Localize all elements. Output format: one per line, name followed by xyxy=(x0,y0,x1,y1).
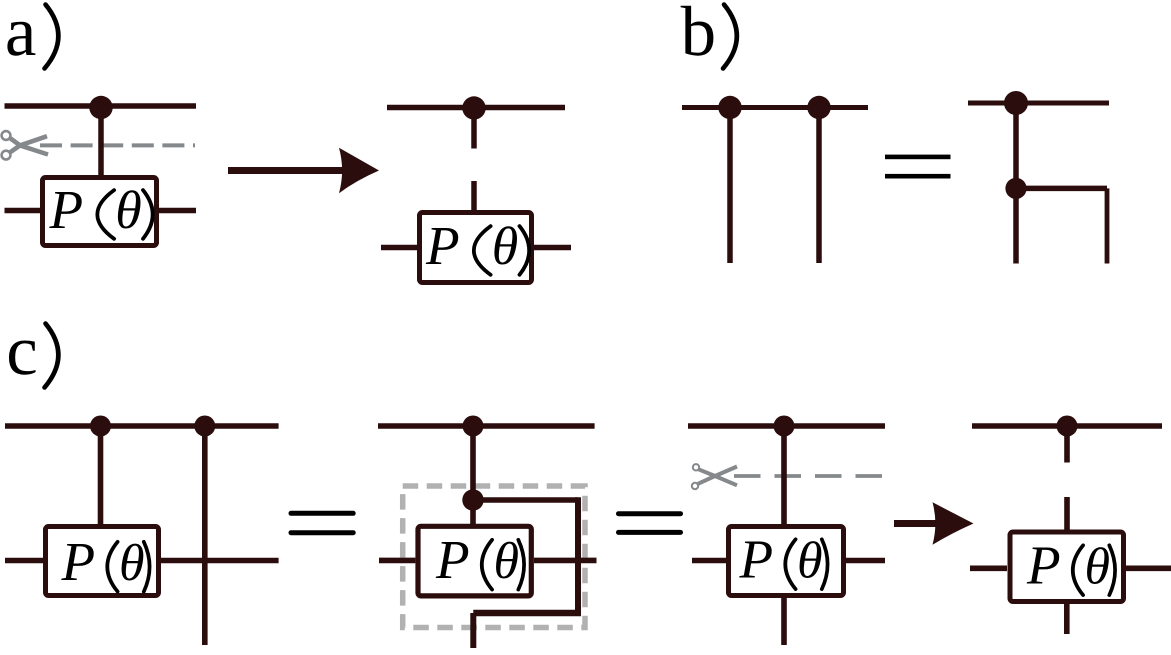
scissors: panel a cut symbol xyxy=(2,131,48,159)
wire: panel c circuit1 control qubit line xyxy=(5,423,279,429)
wire: panel a left, target qubit right segment xyxy=(159,208,196,214)
svg-text:θ: θ xyxy=(797,533,823,590)
svg-text:θ: θ xyxy=(115,180,142,240)
wire: panel c circuit2 control qubit line xyxy=(378,423,595,429)
control dot: panel a right xyxy=(462,96,485,119)
svg-text:θ: θ xyxy=(119,535,145,592)
gate box: panel c circuit3 P(theta) xyxy=(729,527,844,596)
gate box: panel c circuit2 P(theta) xyxy=(418,526,531,596)
wire: panel c circuit4 bottom leg xyxy=(1064,601,1070,634)
arrow: panel c xyxy=(894,502,974,544)
wire: panel c circuit4 target left segment xyxy=(970,565,1007,571)
wire: panel c circuit4 lower cut stub xyxy=(1064,497,1070,531)
wire: panel c circuit2 wrap top horizontal xyxy=(473,497,578,503)
wire: panel c circuit2 wrap bottom horizontal xyxy=(473,610,581,617)
wire: panel c circuit2 target right segment xyxy=(534,558,597,564)
gate label: panel c circuit2 P(theta) xyxy=(435,529,524,590)
equals sign: panel b xyxy=(885,155,951,179)
gate label: panel a left P(theta) xyxy=(49,179,153,240)
wire: panel a right, target left segment xyxy=(381,245,417,251)
svg-text:b: b xyxy=(681,0,717,71)
svg-text:a: a xyxy=(5,0,37,71)
svg-text:θ: θ xyxy=(494,533,520,590)
svg-text:P: P xyxy=(61,531,96,592)
svg-text:c: c xyxy=(6,312,38,390)
wire: panel c circuit1 target right segment xyxy=(161,558,279,564)
dashed box: panel c circuit2 xyxy=(403,486,585,628)
wire: panel c circuit3 target right segment xyxy=(844,558,885,564)
wire: panel a right, target right segment xyxy=(534,245,571,251)
svg-text:P: P xyxy=(739,529,774,590)
wire: panel c circuit2 target left segment xyxy=(379,558,415,564)
gate box: panel a right P(theta) xyxy=(420,213,532,283)
wire: panel c circuit2 wrap right vertical xyxy=(575,497,581,613)
wire: panel c circuit2 vertical control link xyxy=(470,426,476,527)
cut line: panel c dashed xyxy=(734,474,883,478)
label c) xyxy=(6,312,58,390)
arrow: panel a xyxy=(228,148,379,193)
gate label: panel c circuit4 P(theta) xyxy=(1026,535,1115,596)
gate label: panel a right P(theta) xyxy=(425,215,529,276)
wire: panel b right horizontal branch xyxy=(1016,186,1107,192)
wire: panel b left second vertical xyxy=(816,108,822,264)
gate box: panel c circuit4 P(theta) xyxy=(1010,532,1124,602)
wire: panel c circuit1 first vertical xyxy=(98,426,104,526)
gate box: panel c circuit1 P(theta) xyxy=(46,527,159,596)
wire: panel b right, qubit line xyxy=(968,101,1109,106)
scissors: panel c cut symbol xyxy=(692,464,737,489)
wire: panel c circuit1 target left segment xyxy=(5,558,43,564)
wire: panel c circuit2 bottom leg xyxy=(470,613,476,648)
svg-text:P: P xyxy=(1026,535,1061,596)
gate label: panel c circuit3 P(theta) xyxy=(739,529,828,590)
wire: panel a left, vertical control link xyxy=(98,108,104,178)
wire: panel c circuit1 second vertical xyxy=(202,426,208,645)
gate label: panel c circuit1 P(theta) xyxy=(61,531,150,592)
wire: panel b left first vertical xyxy=(727,108,733,264)
control dot: panel b left second xyxy=(807,96,830,119)
wire: panel a right, upper cut stub xyxy=(471,108,477,149)
control dot: panel c circuit2 top xyxy=(463,416,484,437)
control dot: panel c circuit2 inner xyxy=(462,489,483,510)
wire: panel c circuit3 target left segment xyxy=(692,558,728,564)
control dot: panel c circuit1 second xyxy=(194,416,215,437)
cut line: panel a dashed xyxy=(40,143,195,147)
svg-text:P: P xyxy=(435,529,470,590)
control dot: panel a left xyxy=(89,96,112,119)
label b) xyxy=(681,0,737,71)
control dot: panel b right middle xyxy=(1005,178,1026,199)
wire: panel a right, lower cut stub xyxy=(471,181,477,212)
control dot: panel c circuit1 first xyxy=(90,416,111,437)
svg-text:P: P xyxy=(425,215,460,276)
wire: panel c circuit3 vertical control link xyxy=(781,426,787,527)
wire: panel b right main vertical xyxy=(1013,103,1019,264)
label a) xyxy=(5,0,58,71)
control dot: panel b left first xyxy=(718,96,741,119)
wire: panel c circuit3 bottom leg xyxy=(781,595,787,645)
svg-text:θ: θ xyxy=(1085,539,1111,596)
gate box: panel a left P(theta) xyxy=(43,178,157,246)
wire: panel c circuit3 control qubit line xyxy=(688,423,885,429)
wire: panel c circuit4 upper cut stub xyxy=(1064,426,1070,463)
wire: panel a right, control qubit line xyxy=(387,105,565,111)
svg-text:P: P xyxy=(49,179,84,240)
wire: panel c circuit4 control qubit line xyxy=(972,423,1162,429)
control dot: panel b right top xyxy=(1004,91,1028,115)
wire: panel b left, qubit line xyxy=(682,105,868,110)
control dot: panel c circuit4 xyxy=(1057,416,1078,437)
wire: panel c circuit4 target right segment xyxy=(1125,565,1171,571)
equals sign: panel c second xyxy=(616,511,683,535)
wire: panel a left, target qubit left segment xyxy=(5,208,41,214)
wire: panel b right elbow vertical xyxy=(1105,188,1110,263)
wire: panel a left, control qubit line xyxy=(5,103,197,109)
control dot: panel c circuit3 xyxy=(774,416,795,437)
equals sign: panel c first xyxy=(289,511,356,535)
svg-text:θ: θ xyxy=(492,216,519,276)
